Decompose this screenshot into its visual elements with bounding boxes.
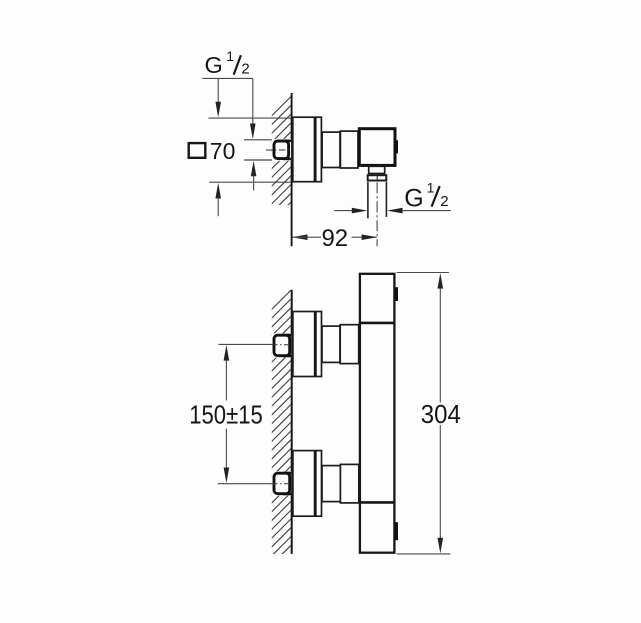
- square valve head (top view): [359, 129, 395, 166]
- 304 dimension top arrow (up): [438, 273, 444, 403]
- wall face line (top view): [291, 93, 293, 246]
- nut top bar to wall: [283, 140, 291, 143]
- svg-text:150±15: 150±15: [189, 401, 263, 429]
- upper escutcheon: [293, 312, 322, 377]
- nut bottom bar to wall: [283, 158, 291, 161]
- extension line escutcheon top: [209, 117, 293, 119]
- svg-text:G: G: [205, 52, 223, 78]
- 150 dimension extension line lower: [218, 483, 275, 485]
- extension line nut top: [244, 139, 272, 141]
- connector nut: [274, 141, 289, 159]
- G 1/2 outlet dimension right arrow: [387, 208, 451, 214]
- escutcheon plate (top view): [293, 117, 322, 182]
- outlet pipe right edge: [385, 182, 387, 217]
- outlet neck below head: [369, 166, 385, 173]
- 92 dimension line right segment with arrow: [352, 234, 378, 240]
- extension line nut bottom: [244, 159, 272, 161]
- lower escutcheon edge thick line: [314, 451, 317, 516]
- 92 dimension line left segment with arrow: [292, 234, 321, 240]
- dimension arrow up at escutcheon bottom: [215, 183, 221, 216]
- extension line escutcheon bottom: [209, 181, 292, 183]
- thermostat body: [360, 274, 395, 553]
- lower connector nut: [274, 473, 290, 494]
- collar divider: [376, 175, 378, 182]
- label G 1/2 (outlet thread): [404, 180, 448, 213]
- handle mark on head right edge: [395, 140, 398, 153]
- valve mid ring (top view): [340, 131, 358, 168]
- svg-text:1: 1: [226, 48, 234, 64]
- body top section line: [359, 322, 396, 325]
- upper escutcheon edge thick line: [314, 312, 317, 377]
- connector nut pocket in wall: [272, 139, 291, 161]
- label G 1/2 (top inlet thread): [205, 48, 250, 78]
- escutcheon edge thick line: [314, 117, 317, 181]
- upper connector nut: [274, 335, 290, 356]
- leader arrow to escutcheon top edge: [215, 78, 221, 117]
- wall face line (front view): [291, 290, 293, 554]
- svg-text:G: G: [404, 185, 423, 213]
- 150 dimension lower arrow (down): [224, 429, 230, 484]
- body bottom section line: [359, 501, 396, 504]
- square symbol of "square 70" label: [189, 143, 206, 158]
- lower nut centerline: [272, 483, 294, 485]
- svg-text:92: 92: [321, 225, 348, 252]
- nut centerline: [266, 149, 291, 151]
- 150 dimension upper arrow (up): [224, 345, 230, 401]
- lower nut top bar: [283, 472, 291, 475]
- 304 dimension extension line bottom: [397, 553, 451, 555]
- svg-text:304: 304: [421, 399, 461, 429]
- 150 dimension extension line upper: [218, 343, 272, 345]
- valve neck (top view): [322, 132, 340, 167]
- upper nut centerline: [272, 344, 294, 346]
- svg-text:2: 2: [440, 193, 448, 210]
- outlet pipe centerline: [376, 182, 378, 246]
- outlet collar nut: [368, 175, 387, 180]
- upper nut bottom bar: [283, 354, 291, 357]
- svg-text:2: 2: [241, 61, 249, 78]
- upper nut top bar: [283, 334, 291, 337]
- svg-text:70: 70: [210, 138, 236, 164]
- outlet pipe left edge: [367, 182, 369, 218]
- upper neck large: [340, 325, 359, 364]
- upper handle mark: [395, 287, 398, 301]
- 304 dimension extension line top: [397, 272, 449, 274]
- G 1/2 outlet dimension left arrow: [334, 208, 367, 214]
- lower handle mark: [395, 522, 398, 540]
- leader underline of G 1/2: [202, 77, 253, 79]
- upper connector nut pocket: [272, 333, 291, 357]
- lower nut bottom bar: [283, 492, 291, 495]
- lower connector nut pocket: [272, 471, 291, 495]
- 304 dimension bottom arrow (down): [438, 425, 444, 553]
- lower escutcheon: [293, 451, 322, 517]
- svg-text:1: 1: [427, 180, 435, 196]
- upper neck small: [322, 326, 340, 362]
- leader arrow to connector nut: [250, 78, 256, 139]
- wall hatching (top view): [0, 0, 502, 623]
- dimension arrow up at nut bottom: [251, 161, 257, 191]
- lower neck small: [322, 466, 340, 502]
- lower neck large: [340, 464, 358, 503]
